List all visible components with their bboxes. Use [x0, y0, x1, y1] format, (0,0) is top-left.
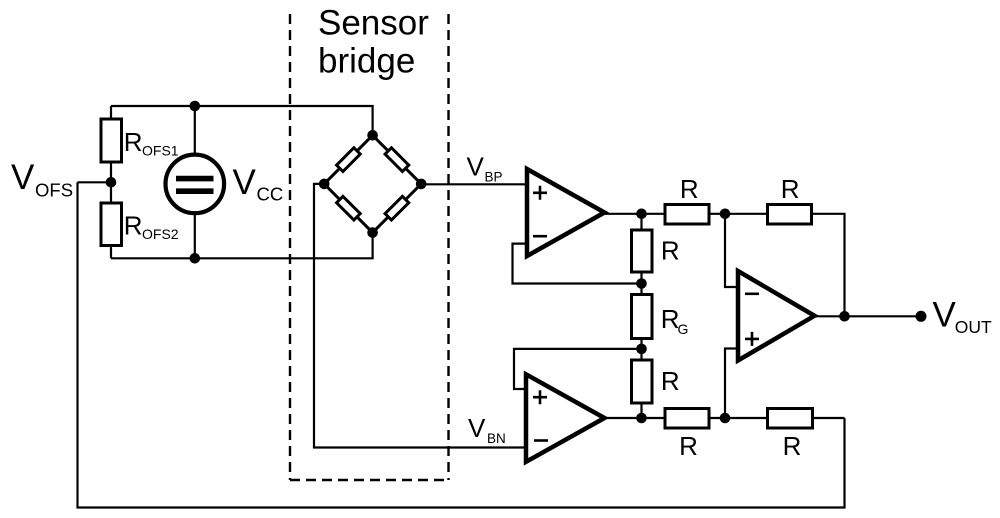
svg-text:V: V [933, 296, 957, 335]
svg-text:BN: BN [487, 431, 506, 446]
svg-text:V: V [233, 163, 257, 202]
svg-text:OFS: OFS [35, 180, 73, 201]
svg-text:R: R [124, 211, 143, 241]
svg-text:CC: CC [257, 183, 284, 204]
svg-text:R: R [680, 174, 699, 204]
svg-text:V: V [11, 158, 35, 197]
svg-text:R: R [661, 366, 680, 396]
svg-text:OFS1: OFS1 [142, 143, 179, 159]
svg-text:bridge: bridge [318, 41, 415, 80]
svg-text:OUT: OUT [955, 317, 992, 337]
svg-text:OFS2: OFS2 [142, 226, 179, 242]
svg-text:R: R [781, 174, 800, 204]
svg-text:R: R [679, 431, 698, 461]
svg-text:BP: BP [485, 169, 503, 184]
svg-text:G: G [678, 321, 689, 337]
svg-text:R: R [661, 236, 680, 266]
svg-text:Sensor: Sensor [318, 4, 429, 43]
svg-text:V: V [467, 151, 485, 181]
svg-text:V: V [468, 413, 486, 443]
svg-text:R: R [124, 127, 143, 157]
svg-text:R: R [783, 431, 802, 461]
